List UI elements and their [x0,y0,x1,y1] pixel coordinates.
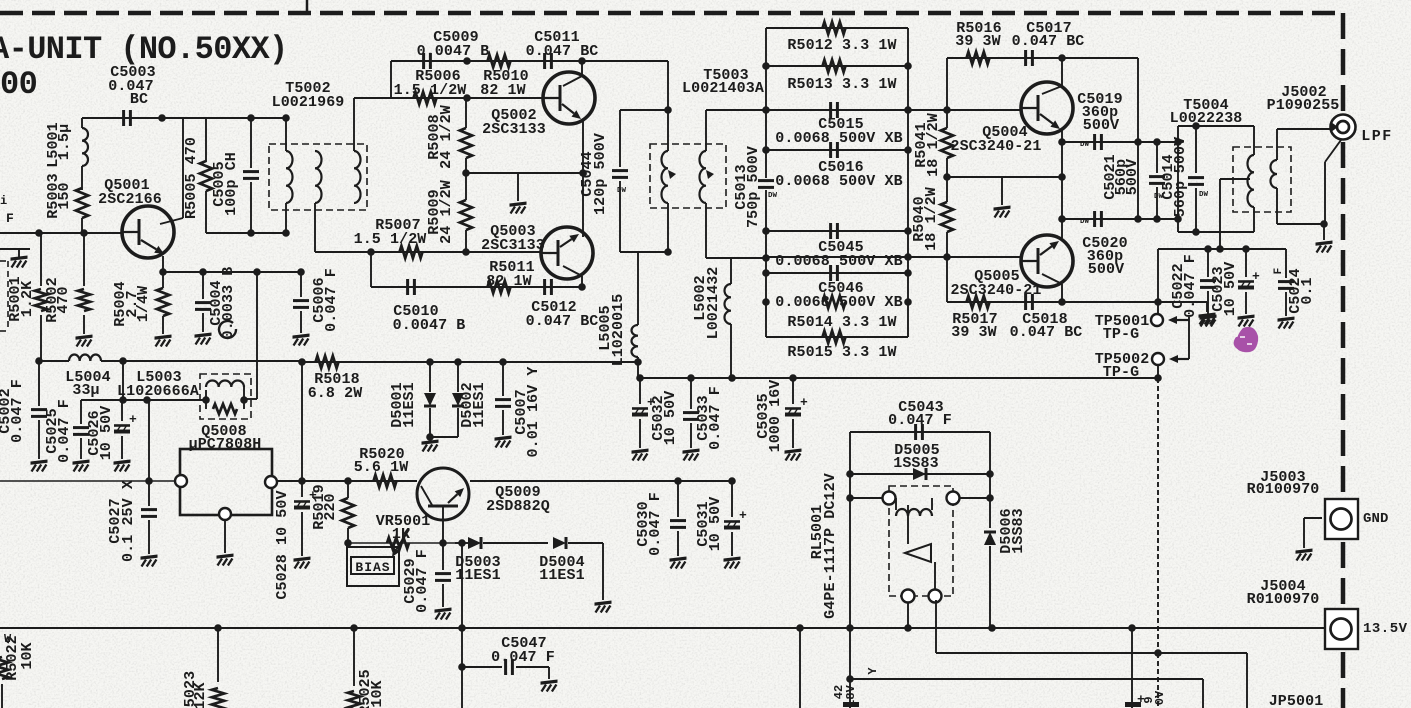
Q5002 emitter arrow [562,104,574,113]
svg-text:R5005 470: R5005 470 [183,137,200,219]
junction [35,357,43,365]
T5004 dashed box [1233,147,1291,212]
transistor Q5005 [1021,235,1073,287]
svg-text:G4PE-1117P DC12V: G4PE-1117P DC12V [822,473,839,619]
junction [1174,138,1182,146]
capacitor C5018 [1024,294,1027,310]
inductor L5003 dashed box [200,374,251,419]
ground [195,333,212,338]
junction [762,269,770,277]
junction [578,57,586,65]
junction [458,663,466,671]
junction [664,248,672,256]
capacitor C5016 [829,142,832,158]
diode D5005 wire [850,473,990,475]
resistor R5012 [823,22,846,34]
junction [634,358,642,366]
connector J5003 [1325,499,1358,539]
svg-text:0.047 F: 0.047 F [1182,254,1199,318]
T5002 primary coil [285,118,287,151]
junction [904,269,912,277]
svg-text:R5015 3.3 1W: R5015 3.3 1W [787,344,896,361]
T5004 tap wire [1220,178,1250,180]
wire emitter to caps [470,480,732,482]
junction [674,477,682,485]
ground [422,440,439,445]
Q5001 emitter arrow [141,240,156,249]
T5003 secondary top wire [706,109,766,111]
junction [463,94,471,102]
svg-text:12K: 12K [192,682,209,708]
ground [1200,315,1217,320]
inductor L5001 [81,118,83,128]
junction [636,374,644,382]
resistor R5006 [414,92,437,104]
junction [762,106,770,114]
Q5003 collector wire [563,266,582,276]
capacitor C5035 [792,378,794,404]
capacitor C5022 [1207,249,1209,277]
L5003 damping resistor [205,400,207,409]
svg-text:500V: 500V [1124,159,1141,195]
svg-text:18V: 18V [844,684,858,707]
svg-text:R0100970: R0100970 [1247,591,1320,608]
junction [904,624,912,632]
T5003 primary [667,61,669,151]
svg-text:120p 500V: 120p 500V [592,133,609,215]
capacitor C5049 (cut) [1125,702,1141,707]
svg-text:1.5 1/2W: 1.5 1/2W [354,231,427,248]
svg-text:1.5µ: 1.5µ [56,124,73,160]
capacitor C5033 [690,378,692,409]
ground [785,449,802,454]
T5003 secondary bottom wire [706,257,766,259]
junction [143,396,151,404]
right link column [1137,58,1139,219]
ground [1296,549,1313,554]
svg-text:0.0047 B: 0.0047 B [417,43,490,60]
wire collector top [82,117,183,119]
svg-text:0.1 25V X: 0.1 25V X [120,480,137,562]
svg-text:DW: DW [768,192,778,200]
junction [904,227,912,235]
capacitor C5015 [829,102,832,118]
junction [943,253,951,261]
capacitor C5046 [829,265,832,281]
ground [1238,315,1255,320]
diode D5004 [553,537,566,549]
resistor R5008 [465,98,467,128]
svg-text:i: i [0,194,7,208]
Q5005 emitter arrow [1040,246,1052,255]
svg-text:500V: 500V [1083,117,1119,134]
diode D5001 [429,362,431,392]
wire L5004 to rail [122,361,124,400]
T5004 bottom rail [1178,231,1254,233]
corner down [1246,653,1248,708]
diode common wire [430,436,458,438]
capacitor C5044 branch [620,109,668,111]
resistor R5015 [823,331,846,343]
TP5002 sense line lower [1157,653,1159,708]
diode D5003 [455,542,468,544]
capacitor C5003 [122,110,125,126]
relay pin A2 [947,492,960,505]
mid wire [947,176,1062,178]
capacitor C5023 [1245,249,1247,277]
capacitor C5012 [543,279,546,295]
svg-text:F: F [1273,268,1285,275]
transistor Q5003 [541,227,593,279]
svg-text:+: + [800,395,808,410]
junction [1216,245,1224,253]
resistor R5003 [76,188,88,218]
capacitor C5032 [639,378,641,404]
junction [35,229,43,237]
junction [1058,173,1066,181]
T5004 primary coil [1253,126,1255,155]
resistor R5016 [967,52,990,64]
resistor R5019 [347,481,349,498]
resistor R5002 [83,233,85,286]
svg-text:10K: 10K [19,642,36,669]
small circle mark [219,321,236,338]
junction [253,268,261,276]
ground [724,557,741,562]
Q5004 collector wire [1061,58,1063,86]
junction [904,106,912,114]
transistor Q5002 [543,72,595,124]
svg-text:1K: 1K [392,526,410,543]
BIAS outer box [347,547,399,586]
TP riser [1157,249,1159,314]
svg-text:0.047 BC: 0.047 BC [526,43,599,60]
junction [664,106,672,114]
junction [463,57,471,65]
inductor L5005 [637,252,639,325]
svg-text:DW: DW [1199,191,1209,199]
junction [119,357,127,365]
wire bottom row [371,286,582,288]
rung R5012 [766,27,908,29]
junction [578,283,586,291]
ground [11,256,28,261]
transistor Q5004 [1021,82,1073,134]
svg-text:µPC7808H: µPC7808H [189,436,262,453]
supply wire [638,377,1158,379]
ground [217,554,234,559]
svg-text:39 3W: 39 3W [951,324,997,341]
emitter wire C5019 row [1062,141,1178,143]
capacitor C5043 [914,424,917,440]
svg-text:0.047 F: 0.047 F [414,549,431,613]
regulator output wire [277,480,417,482]
Q5001 emitter wire [162,256,164,272]
capacitor C5021 branch [1156,142,1158,173]
svg-text:220: 220 [322,493,339,520]
capacitor C5005 [250,118,252,168]
svg-text:0.047 F: 0.047 F [647,492,664,556]
ground [683,449,700,454]
Q5004 emitter wire [1061,130,1063,238]
ground [1316,241,1333,246]
junction [943,106,951,114]
svg-text:0.047 F: 0.047 F [56,399,73,463]
rung C5046 [766,272,908,274]
base wire lower [766,256,1021,258]
svg-text:L0021432: L0021432 [705,267,722,340]
junction [119,396,127,404]
junction [462,169,470,177]
T5002 secondary coil B [353,98,355,151]
junction [499,358,507,366]
capacitor C5009 [422,53,425,69]
svg-text:2SC3240-21: 2SC3240-21 [950,138,1041,155]
junction [1154,298,1162,306]
capacitor C5029 [442,543,444,570]
junction [1153,215,1161,223]
capacitor C5010 [406,279,409,295]
svg-text:L0021403A: L0021403A [682,80,764,97]
Q5002 collector wire [581,61,583,76]
junction [1058,215,1066,223]
Q5001 collector wire [182,118,184,218]
ground [141,555,158,560]
svg-text:0.0068 500V XB: 0.0068 500V XB [775,173,902,190]
variable resistor VR5001 [387,538,409,549]
svg-text:0.047 F: 0.047 F [9,379,26,443]
svg-text:F: F [6,211,14,226]
junction [282,114,290,122]
wire [467,60,582,62]
junction [846,470,854,478]
ground [994,206,1011,211]
wire pin A2 to D5006 [960,497,990,499]
resistor R5006 wire [354,97,544,99]
svg-text:L1020666A: L1020666A [117,383,199,400]
svg-text:0.01 16V Y: 0.01 16V Y [525,366,542,457]
rung C5015 [766,109,908,111]
diode D5006 [989,498,991,528]
svg-text:0.1: 0.1 [1299,277,1316,304]
test point TP5002 [1152,353,1164,365]
junction [1320,220,1328,228]
ground [293,334,310,339]
page edge tick [306,0,309,11]
svg-text:GND: GND [1363,511,1389,527]
svg-text:500V: 500V [1172,137,1189,173]
junction [462,248,470,256]
ladder right rail [907,28,909,337]
junction [579,169,587,177]
test point TP5001 [1151,314,1163,326]
relay coil wire [850,497,884,499]
J5003 ground wire [1304,517,1322,519]
junction [1242,245,1250,253]
capacitor C5030 [677,481,679,517]
svg-text:470: 470 [55,286,72,313]
Q5009 emitter arrow [448,494,457,503]
junction [1058,298,1066,306]
resistor R5018 [316,356,339,368]
capacitor C5026 [121,400,123,421]
TP5002 sense line [1157,378,1159,653]
ground [31,460,48,465]
svg-text:13.5V: 13.5V [1363,621,1408,637]
svg-text:0.0033 B: 0.0033 B [220,267,237,340]
svg-text:18 1/2W: 18 1/2W [923,187,940,251]
svg-text:1.5 1/2W: 1.5 1/2W [394,82,467,99]
wire link emitter node to L5003 [256,272,258,399]
ground [435,608,452,613]
corner down 2 [1202,679,1204,708]
svg-text:DW: DW [617,187,627,195]
capacitor C5011 [543,53,546,69]
svg-text:0.0068 500V XB: 0.0068 500V XB [775,253,902,270]
junction [1154,649,1162,657]
wire [101,360,302,362]
junction [80,229,88,237]
T5003 core mark [668,170,676,179]
junction [297,268,305,276]
bias column [946,58,948,128]
svg-text:82 1W: 82 1W [480,82,526,99]
resistor R5011 [488,281,511,293]
ground [595,601,612,606]
junction [1154,374,1162,382]
resistor R5010 [488,55,511,67]
junction [687,374,695,382]
svg-text:+: + [1252,269,1260,284]
capacitor C5002 [38,361,40,406]
junction [728,374,736,382]
VR5001 arrow [397,529,409,549]
svg-text:150: 150 [56,182,73,209]
Q5008 gnd stem [224,520,226,553]
svg-text:82 1W: 82 1W [486,273,532,290]
resistor R5017 [967,296,990,308]
L5003 coil [205,390,207,400]
svg-text:0V: 0V [1153,690,1167,705]
bias wire [348,542,466,544]
Q5008 pin in [175,475,187,487]
page border right (dashed) [1341,13,1346,112]
ground stub [1001,177,1003,205]
junction [247,229,255,237]
junction [298,477,306,485]
rung C5045 [766,230,908,232]
svg-text:R0100970: R0100970 [1247,481,1320,498]
junction [762,227,770,235]
ground [510,202,527,207]
relay RL5001 dashed box [889,486,953,596]
svg-text:100p CH: 100p CH [223,152,240,216]
junction [350,624,358,632]
D5004 ground stem [602,543,604,600]
svg-text:10 50V: 10 50V [98,406,115,461]
svg-text:BC: BC [130,91,148,108]
BIAS box [351,557,394,574]
junction [145,477,153,485]
junction [1192,122,1200,130]
resistor R5007 [400,246,423,258]
T5003 core mark 2 [706,170,714,179]
resistor R5009 [465,173,467,200]
base wire upper [766,109,1021,111]
junction [159,268,167,276]
capacitor C5019 [1093,134,1096,150]
svg-text:2SC3133: 2SC3133 [481,237,545,254]
ground [541,680,558,685]
capacitor C5043 wire [850,431,990,433]
battery column [1131,628,1133,708]
svg-text:1SS83: 1SS83 [893,455,939,472]
svg-text:+: + [739,508,747,523]
capacitor C5047 [462,666,502,668]
svg-text:0.0068 500V XB: 0.0068 500V XB [775,130,902,147]
capacitor C5031 [731,481,733,517]
relay coil [895,498,897,510]
junction [454,358,462,366]
svg-text:1000 16V: 1000 16V [767,380,784,453]
node IF input wire [0,232,123,234]
svg-text:2SC3133: 2SC3133 [482,121,546,138]
svg-text:1/4W: 1/4W [135,286,152,322]
svg-text:11ES1: 11ES1 [539,567,585,584]
low rail wire [81,399,206,401]
J5002 ground lead [1325,140,1341,162]
resistor R5001 [40,233,42,286]
resistor R5025 [353,628,355,686]
T5003 dashed box [650,144,726,208]
capacitor C5007 [502,362,504,396]
capacitor C5025 [80,400,82,424]
ground [632,449,649,454]
junction [789,374,797,382]
svg-text:0.047 BC: 0.047 BC [1012,33,1085,50]
wire bottom T5002 primary [206,232,286,234]
svg-text:C5028 10 50V: C5028 10 50V [274,490,291,599]
junction [1174,215,1182,223]
svg-text:24 1/2W: 24 1/2W [438,105,455,169]
junction [1134,138,1142,146]
capacitor C5006 [300,272,302,297]
ground [76,335,93,340]
relay contact [905,544,931,562]
emitter wire C5020 row [1062,218,1178,220]
diode D5005 [913,468,926,480]
svg-text:LPF: LPF [1361,128,1393,145]
svg-text:0.0047 B: 0.0047 B [393,317,466,334]
resistor R5007 wire [315,251,542,253]
svg-text:10 50V: 10 50V [1222,262,1239,317]
svg-text:W: W [4,632,12,646]
svg-text:2SC3240-21: 2SC3240-21 [950,282,1041,299]
diode D5002 [457,362,459,392]
junction [1134,215,1142,223]
T5004 secondary coil [1276,129,1278,160]
transformer T5002 dashed box [269,144,367,210]
ground [73,460,90,465]
transistor Q5001 [122,206,174,258]
Q5005 collector wire [1042,274,1062,284]
junction [344,477,352,485]
inductor L5004 wire [39,360,69,362]
wire C5010 branch [370,252,372,287]
svg-text:00: 00 [0,66,37,103]
driver feed wire [302,361,638,363]
svg-text:1SS83: 1SS83 [1010,508,1027,554]
